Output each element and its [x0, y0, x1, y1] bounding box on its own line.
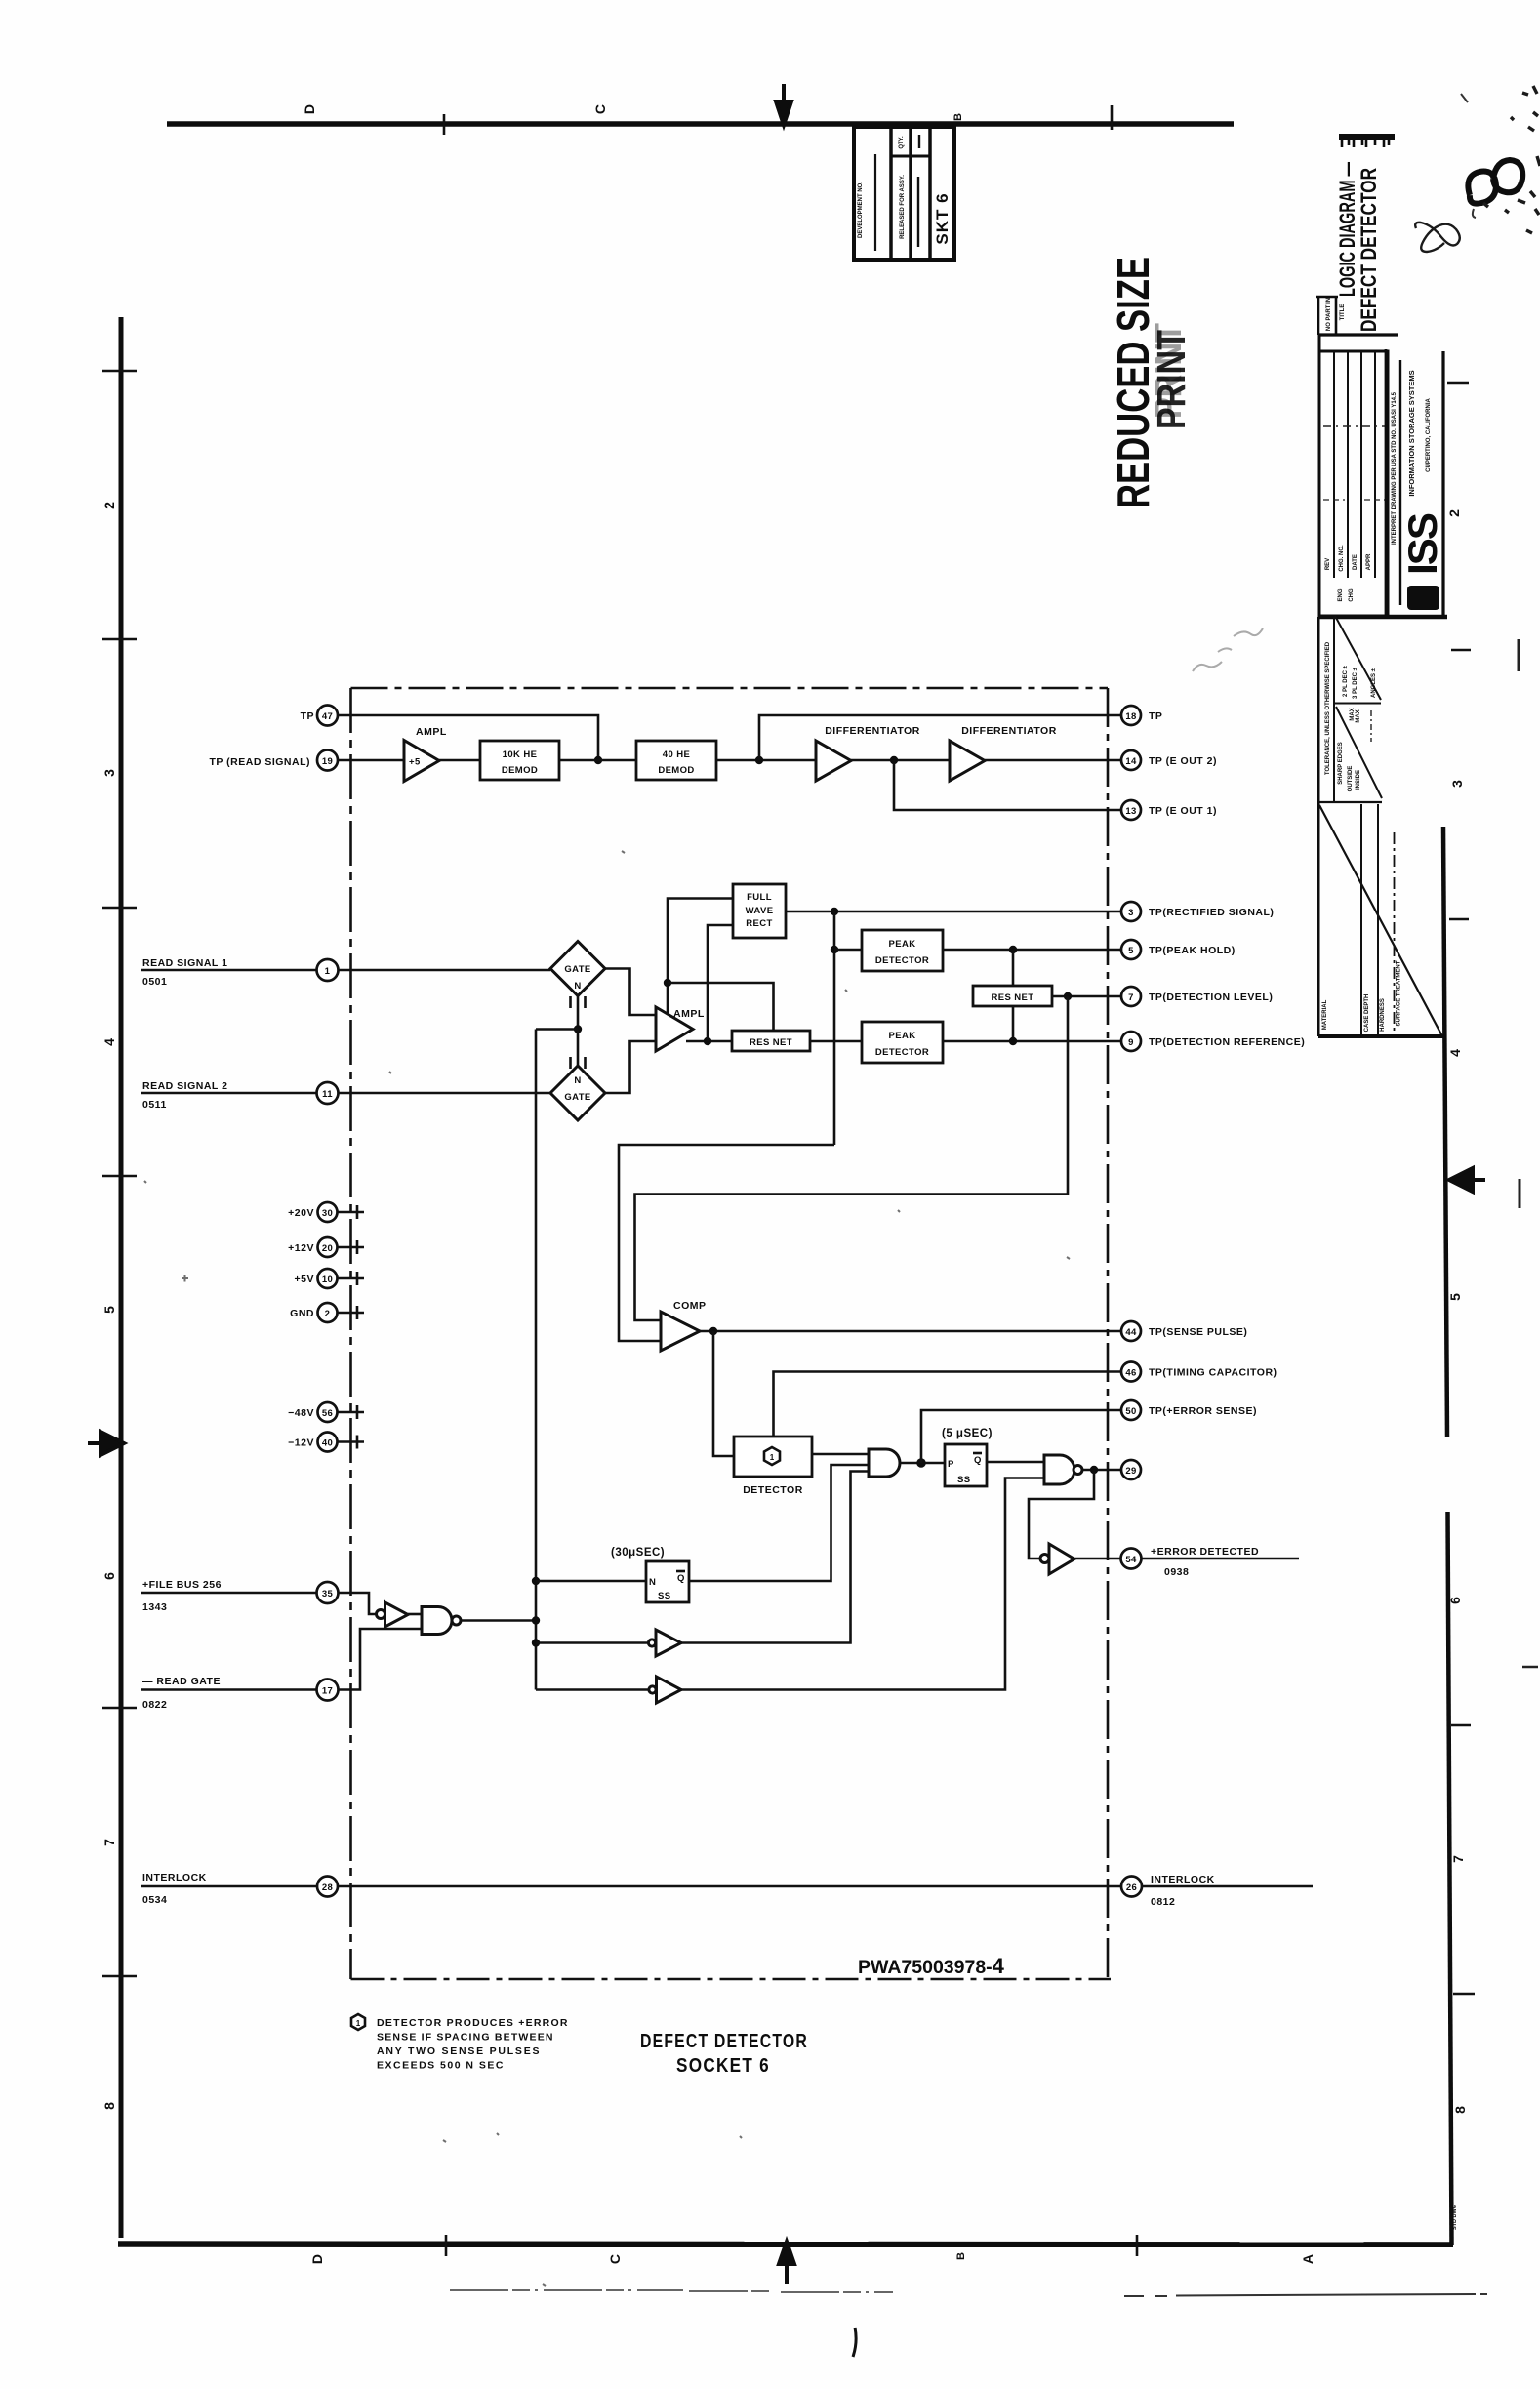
svg-text:TP(DETECTION LEVEL): TP(DETECTION LEVEL) [1149, 992, 1273, 1003]
svg-text:HARDNESS: HARDNESS [1380, 998, 1386, 1032]
right zone tick at gap [1451, 649, 1471, 651]
svg-text:6: 6 [1447, 1597, 1463, 1604]
pin circle 54 [1121, 1549, 1142, 1569]
iss block left line [1385, 349, 1388, 617]
box 40 HE DEMOD [636, 741, 716, 780]
svg-text:OUTSIDE: OUTSIDE [1348, 766, 1354, 792]
svg-text:DIFFERENTIATOR: DIFFERENTIATOR [825, 725, 920, 737]
svg-text:INFORMATION STORAGE SYSTEMS: INFORMATION STORAGE SYSTEMS [1407, 370, 1416, 496]
svg-text:TP(SENSE PULSE): TP(SENSE PULSE) [1149, 1326, 1247, 1338]
pin circle 19 [317, 750, 338, 771]
pin circle 28 [317, 1877, 338, 1897]
left tick 2 [102, 638, 137, 640]
svg-text:13: 13 [1125, 806, 1136, 817]
wire rectified route to comp [619, 1145, 834, 1341]
svg-text:14: 14 [1125, 756, 1137, 767]
stub -12V [338, 1436, 365, 1449]
svg-text:ANY TWO SENSE PULSES: ANY TWO SENSE PULSES [377, 2045, 540, 2057]
one-shot SS 5usec [945, 1444, 987, 1486]
svg-text:SENSE IF SPACING BETWEEN: SENSE IF SPACING BETWEEN [377, 2032, 553, 2044]
right tick 2 [1449, 918, 1469, 920]
right tick 3 [1451, 1724, 1471, 1726]
svg-text:Q: Q [974, 1455, 982, 1466]
signature line col1 [874, 154, 876, 251]
svg-text:4: 4 [1447, 1049, 1463, 1057]
wire diff1 to diff2 [851, 759, 950, 762]
svg-text:1: 1 [325, 966, 331, 977]
svg-text:DIFFERENTIATOR: DIFFERENTIATOR [961, 725, 1057, 737]
svg-text:30: 30 [322, 1208, 333, 1219]
svg-text:CASE DEPTH: CASE DEPTH [1364, 994, 1370, 1033]
svg-text:TP(PEAK HOLD): TP(PEAK HOLD) [1149, 945, 1236, 956]
fold mark right edge lower [1522, 1666, 1538, 1669]
node dot sense pulse [709, 1327, 717, 1335]
inverter sense enable [648, 1640, 655, 1646]
tolerance diagonal 2 [1336, 707, 1382, 798]
material col dashdot [1394, 832, 1396, 1036]
svg-text:B: B [955, 2252, 967, 2260]
tick top border right [1111, 105, 1114, 130]
svg-text:(30μSEC): (30μSEC) [611, 1547, 665, 1559]
wire ampl2 output [686, 1040, 732, 1043]
fold mark right edge mid [1519, 1179, 1521, 1208]
pin circle 56 [318, 1402, 338, 1422]
pin circle 20 [318, 1237, 338, 1257]
scale ruler ticks [1342, 140, 1389, 147]
svg-text:17: 17 [322, 1686, 333, 1697]
svg-text:ENG: ENG [1338, 588, 1344, 601]
release box row line [891, 155, 930, 158]
wire pin35 to inverter buffer [339, 1593, 377, 1614]
wire peak det2 to pin9 [943, 1040, 1121, 1043]
left tick 3 [102, 907, 137, 909]
svg-text:3: 3 [1449, 780, 1465, 788]
stub +12V [338, 1240, 365, 1254]
wire read signal 2 [141, 1092, 317, 1095]
node dot detection reference [1009, 1037, 1017, 1045]
wire input net to res net top [668, 983, 774, 1031]
top border line [167, 121, 1234, 127]
svg-text:20: 20 [322, 1243, 333, 1254]
release box col line 2 [909, 127, 912, 260]
control ticks gate2 [571, 1057, 586, 1069]
svg-text:5: 5 [101, 1306, 117, 1314]
svg-text:0938: 0938 [1164, 1566, 1189, 1578]
amplifier AMPL +5 [404, 741, 439, 782]
pin circle 13 [1121, 800, 1141, 820]
node dot ampl2 output [704, 1037, 711, 1045]
svg-text:— READ GATE: — READ GATE [142, 1676, 221, 1687]
release box col line 3 [928, 127, 932, 260]
box PEAK DETECTOR 2 [862, 1022, 943, 1063]
wire bus to buffer2 [536, 1641, 648, 1644]
svg-text:−48V: −48V [288, 1407, 314, 1419]
wire sense pulse to detector [713, 1331, 734, 1456]
wire interlock left [141, 1885, 317, 1888]
svg-text:18: 18 [1125, 711, 1136, 722]
buffer differentiator 2 [950, 741, 985, 781]
wire ss5 to nand [987, 1461, 1044, 1464]
wire peak hold to res net 2 [1012, 950, 1015, 986]
wire tap to FWR lower input [708, 925, 733, 1041]
svg-text:40: 40 [322, 1438, 333, 1449]
svg-text:WAVE: WAVE [746, 906, 774, 916]
svg-text:RES NET: RES NET [750, 1037, 792, 1048]
svg-text:+5V: +5V [295, 1274, 314, 1285]
stray ink specks [144, 851, 1070, 2286]
wire buffer3 route to nand [681, 1478, 1044, 1690]
svg-text:ISS: ISS [1399, 513, 1445, 575]
svg-text:+5: +5 [409, 757, 421, 768]
material diagonal [1319, 805, 1442, 1036]
release box outline [854, 127, 954, 260]
svg-text:29: 29 [1125, 1466, 1136, 1477]
node dot demod line [594, 756, 602, 764]
rev col line 3 [1360, 351, 1362, 578]
wire FWR output to pin3 [786, 911, 1121, 913]
stub +5V [338, 1272, 365, 1285]
svg-text:7: 7 [1128, 992, 1134, 1003]
svg-text:QTY.: QTY. [899, 136, 905, 149]
wire read gate [141, 1688, 317, 1691]
dashed line below bottom border right [1124, 2294, 1487, 2296]
svg-text:7: 7 [101, 1839, 117, 1846]
comparator COMP [661, 1312, 700, 1351]
wire peak det1 to pin5 [943, 949, 1121, 952]
wire demod1 to demod2 [559, 759, 636, 762]
hexagon note symbol in detector [764, 1447, 780, 1465]
wire res net1 to peak det2 [810, 1040, 862, 1043]
pin circle 46 [1121, 1362, 1141, 1382]
pen mark below bottom border [853, 2328, 856, 2357]
wire TP47 to node [339, 715, 599, 760]
svg-text:4: 4 [101, 1038, 117, 1046]
svg-text:TP(TIMING CAPACITOR): TP(TIMING CAPACITOR) [1149, 1367, 1277, 1379]
wire gate1 to ampl upper [605, 969, 660, 1016]
svg-text:10: 10 [322, 1275, 333, 1285]
tolerance box left edge [1317, 617, 1320, 802]
wire detector out to and gate [812, 1453, 869, 1456]
part no box lines [1316, 296, 1338, 335]
svg-text:TOLERANCE, UNLESS OTHERWISE SP: TOLERANCE, UNLESS OTHERWISE SPECIFIED [1325, 641, 1331, 775]
svg-text:APPR: APPR [1366, 553, 1372, 570]
wire demod2 to diff1 [716, 759, 816, 762]
svg-text:N: N [574, 1075, 581, 1086]
svg-text:1: 1 [770, 1453, 775, 1462]
svg-text:7: 7 [1450, 1855, 1466, 1863]
wire interlock out [1142, 1885, 1313, 1888]
svg-text:REV: REV [1325, 558, 1331, 570]
wire 19 to ampl [339, 759, 405, 762]
pin circle 30 [318, 1202, 338, 1222]
PWA board dash-dot boundary box [351, 688, 1112, 1979]
wire buffer2 route to and [681, 1472, 869, 1643]
stub GND [338, 1306, 365, 1319]
left tick 1 [102, 370, 137, 372]
pin circle 10 [318, 1269, 338, 1288]
svg-text:NO PART IN: NO PART IN [1326, 298, 1332, 331]
svg-text:0812: 0812 [1151, 1896, 1175, 1908]
svg-text:CHG. NO.: CHG. NO. [1339, 545, 1345, 572]
stub +20V [338, 1205, 365, 1219]
iss block inner line [1399, 360, 1401, 605]
rev col line 2 [1347, 351, 1349, 578]
svg-text:A: A [1300, 2254, 1316, 2264]
pin circle 17 [317, 1680, 339, 1701]
wire nand out to inverter [1029, 1470, 1094, 1559]
material col line 2 [1377, 804, 1379, 1036]
centering arrow left [88, 1432, 124, 1455]
pencil mark near top corner [1461, 94, 1476, 218]
fold mark right edge upper [1518, 639, 1520, 671]
wire input node vertical [668, 899, 733, 1016]
svg-text:0822: 0822 [142, 1699, 167, 1711]
corner speckles [1483, 86, 1540, 233]
material col line 1 [1360, 804, 1362, 1036]
and gate U1 [869, 1449, 900, 1477]
svg-text:CUPERTINO, CALIFORNIA: CUPERTINO, CALIFORNIA [1426, 398, 1432, 472]
right tick 4 [1453, 1993, 1475, 1995]
svg-text:54: 54 [1125, 1555, 1137, 1565]
rev col line 4 [1374, 351, 1376, 578]
wire res net 2 below [1012, 1006, 1015, 1041]
wire inverter to pin54 [1074, 1558, 1121, 1560]
svg-text:TP (E OUT 1): TP (E OUT 1) [1149, 805, 1217, 817]
wire diff2 to pin14 [985, 759, 1121, 762]
svg-text:DATE: DATE [1353, 554, 1358, 570]
wire ss30 output route to and [689, 1465, 869, 1581]
svg-text:40 HE: 40 HE [663, 749, 690, 760]
svg-text:TP (E OUT 2): TP (E OUT 2) [1149, 755, 1217, 767]
svg-text:SHARP EDGES: SHARP EDGES [1338, 742, 1344, 785]
svg-text:AMPL: AMPL [673, 1008, 705, 1020]
svg-text:DEFECT DETECTOR: DEFECT DETECTOR [640, 2031, 808, 2052]
node dot between gates [574, 1025, 582, 1033]
wire bus corner to buffer3 [536, 1688, 649, 1691]
node dot input net [664, 979, 671, 987]
svg-text:STD DWG: STD DWG [1452, 2205, 1458, 2230]
pin circle 40 [318, 1433, 338, 1452]
svg-text:+ERROR DETECTED: +ERROR DETECTED [1151, 1546, 1259, 1558]
pin circle 9 [1121, 1032, 1141, 1051]
handwritten figure 8 [1415, 223, 1460, 252]
svg-text:DETECTOR: DETECTOR [743, 1484, 803, 1496]
svg-text:−12V: −12V [288, 1437, 314, 1449]
tolerance mid line [1334, 703, 1381, 705]
svg-text:19: 19 [322, 756, 333, 767]
one-shot SS 30usec [646, 1561, 689, 1602]
svg-text:8: 8 [101, 2102, 117, 2110]
svg-text:GND: GND [290, 1308, 314, 1319]
pin circle 14 [1121, 750, 1141, 770]
pin circle 3 [1121, 902, 1141, 921]
control ticks gate1 [571, 996, 586, 1008]
svg-text:2: 2 [1446, 509, 1462, 517]
svg-text:TP (READ SIGNAL): TP (READ SIGNAL) [210, 756, 310, 768]
wire pin11 to gate2 [339, 1092, 551, 1095]
svg-text:EXCEEDS 500 N SEC: EXCEEDS 500 N SEC [377, 2060, 504, 2072]
wire buffer to nand2 [408, 1613, 422, 1616]
svg-text:47: 47 [322, 711, 333, 722]
material box left edge [1317, 802, 1320, 1036]
wire node to long vertical [536, 1028, 578, 1031]
node dot between differentiators [890, 756, 898, 764]
svg-text:RECT: RECT [746, 918, 772, 929]
pin circle 2 [318, 1303, 338, 1322]
svg-text:TITLE: TITLE [1340, 304, 1346, 321]
title block mid separator [1319, 615, 1447, 620]
box RES NET 2 [973, 986, 1052, 1006]
right tick 1 [1447, 382, 1469, 384]
gate diamond 2 [550, 1066, 605, 1120]
pin circle 47 [317, 706, 338, 726]
wire nand output to pin29 [1082, 1469, 1121, 1472]
inverter error detected [1040, 1555, 1049, 1563]
inverter gate enable [649, 1686, 656, 1693]
wire interlock across [338, 1885, 1121, 1888]
ISS logo block [1407, 586, 1439, 610]
svg-text:INSIDE: INSIDE [1356, 770, 1361, 790]
node dot bus buffer2 [532, 1639, 540, 1646]
wire node to pin18 [759, 715, 1121, 760]
left tick 5 [102, 1707, 137, 1709]
inverting buffer file bus [377, 1610, 385, 1619]
svg-text:P: P [948, 1459, 954, 1470]
node dot bus nand [532, 1616, 540, 1624]
svg-text:SURFACE TREATMENT: SURFACE TREATMENT [1397, 960, 1402, 1026]
svg-text:COMP: COMP [673, 1300, 707, 1312]
wire and output [900, 1462, 945, 1465]
centering arrow right [1449, 1168, 1485, 1192]
svg-text:SKT 6: SKT 6 [933, 192, 952, 244]
svg-text:READ SIGNAL 2: READ SIGNAL 2 [142, 1080, 227, 1092]
wire error detected out [1142, 1558, 1300, 1560]
svg-text:5: 5 [1447, 1293, 1463, 1301]
svg-text:READ SIGNAL 1: READ SIGNAL 1 [142, 957, 227, 969]
pin circle 29 [1121, 1460, 1141, 1479]
svg-text:GATE: GATE [564, 964, 590, 975]
rev col line 1 [1333, 351, 1335, 578]
corner scribble stamp [1468, 160, 1522, 204]
svg-text:10K HE: 10K HE [503, 749, 538, 760]
svg-text:+FILE BUS 256: +FILE BUS 256 [142, 1579, 222, 1591]
svg-text:DETECTOR: DETECTOR [875, 955, 929, 966]
svg-text:DEFECT DETECTOR: DEFECT DETECTOR [1357, 168, 1381, 332]
node dot bus ss30 [532, 1577, 540, 1585]
wire ampl to demod1 [439, 759, 480, 762]
node dot peak det1 tap [831, 946, 838, 953]
dashed line below bottom border [450, 2290, 893, 2292]
svg-text:RELEASED FOR ASSY.: RELEASED FOR ASSY. [900, 175, 906, 239]
pin circle 18 [1121, 706, 1141, 725]
tolerance dashdot [1370, 710, 1372, 742]
box PEAK DETECTOR 1 [862, 930, 943, 971]
right border line upper [1443, 827, 1447, 1437]
svg-text:TP: TP [301, 710, 314, 722]
svg-text:DEMOD: DEMOD [502, 765, 538, 776]
svg-text:CHG: CHG [1349, 588, 1355, 602]
node dot after demod2 [755, 756, 763, 764]
rev table outline [1319, 351, 1388, 616]
release box col line 1 [889, 127, 893, 260]
svg-text:TP(+ERROR SENSE): TP(+ERROR SENSE) [1149, 1405, 1257, 1417]
svg-text:8: 8 [1452, 2106, 1468, 2114]
pin circle 1 [317, 959, 339, 981]
title block top line [1318, 333, 1398, 336]
svg-text:MATERIAL: MATERIAL [1322, 999, 1328, 1030]
wire long vertical control bus [535, 1030, 538, 1690]
pin circle 7 [1121, 987, 1141, 1006]
svg-text:9: 9 [1128, 1037, 1134, 1048]
hexagon note 1 [351, 2014, 365, 2030]
nand gate U2 [1044, 1455, 1074, 1484]
svg-text:28: 28 [322, 1883, 333, 1893]
scale ruler bar [1339, 134, 1395, 140]
node dot detection level [1064, 992, 1072, 1000]
svg-text:ANGLES ±: ANGLES ± [1371, 668, 1377, 698]
svg-text:11: 11 [322, 1089, 333, 1100]
tick top border [443, 114, 446, 135]
svg-text:TP(RECTIFIED SIGNAL): TP(RECTIFIED SIGNAL) [1149, 907, 1274, 918]
wire file bus [141, 1592, 317, 1595]
svg-text:Q: Q [677, 1573, 685, 1584]
svg-text:0511: 0511 [142, 1099, 167, 1111]
svg-text:RES NET: RES NET [992, 992, 1034, 1003]
svg-text:3: 3 [1128, 908, 1134, 918]
svg-text:D: D [309, 2254, 325, 2264]
svg-text:+12V: +12V [288, 1242, 314, 1254]
svg-text:C: C [592, 104, 608, 114]
svg-text:PEAK: PEAK [889, 1031, 916, 1041]
rev table left edge extension [1318, 335, 1321, 351]
svg-text:3: 3 [101, 769, 117, 777]
svg-text:6: 6 [101, 1572, 117, 1580]
wire res net2 to pin7 [1052, 995, 1121, 998]
svg-text:DETECTOR PRODUCES +ERROR: DETECTOR PRODUCES +ERROR [377, 2017, 568, 2029]
wire timing capacitor [774, 1372, 1121, 1437]
stub -48V [338, 1405, 365, 1419]
left tick 4 [102, 1175, 137, 1177]
box FULL WAVE RECT [733, 884, 786, 938]
pin circle 50 [1121, 1400, 1141, 1420]
svg-text:(5 μSEC): (5 μSEC) [942, 1428, 993, 1439]
wire rectified vertical [833, 911, 836, 1145]
left tick 6 [102, 1975, 137, 1977]
pin circle 11 [317, 1082, 339, 1104]
wire bus to ss30 [536, 1580, 646, 1583]
svg-text:DEVELOPMENT NO.: DEVELOPMENT NO. [858, 182, 864, 238]
box RES NET 1 [732, 1031, 810, 1051]
tolerance bottom line [1318, 801, 1382, 803]
pin circle 44 [1121, 1321, 1141, 1341]
svg-text:PWA75003978-4: PWA75003978-4 [858, 1954, 1005, 1978]
svg-text:GATE: GATE [564, 1092, 590, 1103]
svg-text:3 PL DEC ±: 3 PL DEC ± [1353, 667, 1358, 699]
svg-text:0501: 0501 [142, 976, 167, 988]
svg-text:46: 46 [1125, 1368, 1136, 1379]
svg-text:5: 5 [1128, 946, 1134, 956]
pin circle 5 [1121, 940, 1141, 959]
svg-text:SOCKET 6: SOCKET 6 [676, 2055, 770, 2077]
wire tap to peak det1 [834, 949, 862, 952]
node dot rectified [831, 908, 838, 915]
svg-text:INTERLOCK: INTERLOCK [142, 1872, 207, 1883]
svg-text:35: 35 [322, 1589, 334, 1599]
svg-text:2: 2 [101, 502, 117, 509]
pin circle 35 [317, 1582, 339, 1603]
rev entry dash 2 [1323, 499, 1386, 501]
tolerance inner line [1333, 617, 1335, 802]
